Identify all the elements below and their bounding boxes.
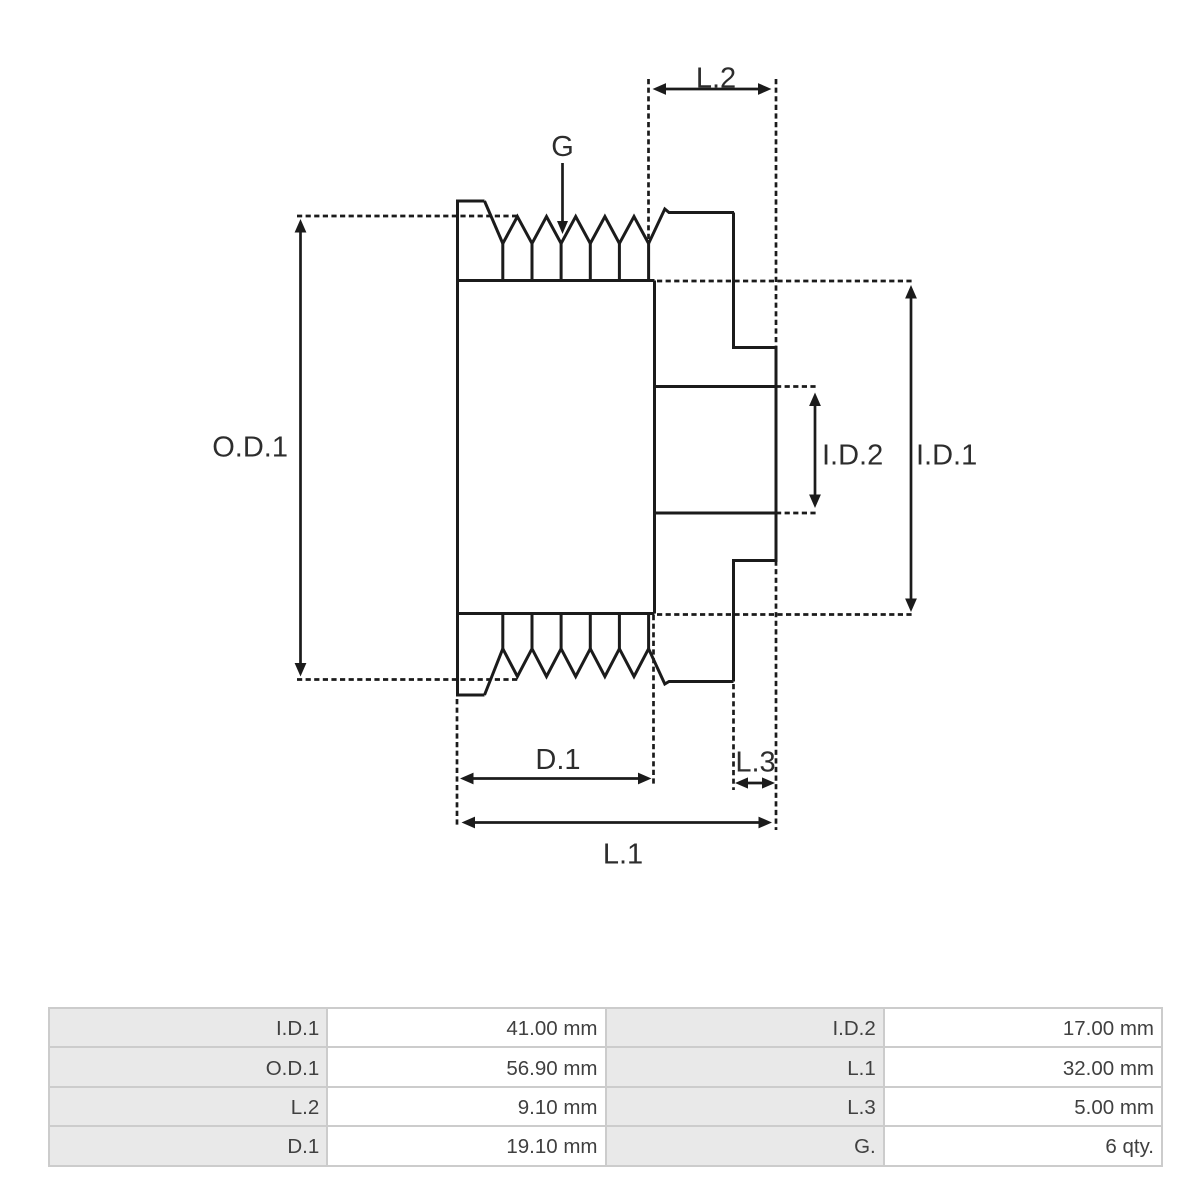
svg-text:G: G — [551, 131, 574, 163]
svg-text:I.D.2: I.D.2 — [822, 440, 883, 472]
I.D.2 dimension arrow (vertical) — [814, 403, 817, 497]
right face dashed reference upper — [775, 79, 778, 348]
svg-text:L.1: L.1 — [603, 839, 643, 871]
I.D.2 top dashed reference — [776, 385, 818, 388]
bottom groove baseline — [458, 612, 655, 615]
O.D.1 dimension arrow (vertical) — [299, 230, 302, 665]
L.2 dimension arrow (horizontal) — [664, 88, 760, 91]
I.D.1 bottom dashed reference — [657, 613, 914, 616]
dimension value table — [48, 1007, 1163, 1167]
L.2 left dashed reference — [647, 79, 650, 244]
top groove stems — [503, 244, 649, 281]
top groove baseline — [458, 279, 655, 282]
G leader arrow — [561, 163, 564, 222]
svg-text:I.D.1: I.D.1 — [916, 440, 977, 472]
svg-text:D.1: D.1 — [535, 744, 580, 776]
pulley bottom V-groove zigzag (6 grooves) — [503, 649, 649, 677]
O.D.1 bottom reference dashed line — [297, 678, 518, 681]
I.D.2 bottom dashed reference — [776, 512, 818, 515]
L.1 dimension arrow (horizontal) — [472, 821, 762, 824]
L.3 left dashed reference — [732, 684, 735, 790]
D.1 left dashed reference — [456, 699, 459, 828]
svg-text:L.3: L.3 — [735, 747, 775, 779]
pulley top V-groove zigzag (6 grooves) — [503, 217, 649, 244]
shaft bore top line — [655, 385, 777, 388]
pulley bottom-right lip slant — [649, 649, 734, 684]
hub upper-right profile — [734, 213, 777, 682]
D.1 right dashed reference — [652, 615, 655, 785]
L.3 dimension arrow (horizontal) — [744, 782, 766, 785]
I.D.1 top dashed reference — [657, 280, 914, 283]
bottom groove stems — [503, 614, 649, 649]
svg-text:O.D.1: O.D.1 — [212, 432, 288, 464]
pulley top-right lip slant — [649, 209, 734, 244]
pulley top cap slant into first groove — [485, 201, 503, 244]
pulley left flange: top cap, left edge, bottom cap — [458, 201, 485, 695]
shaft bore bottom line — [655, 512, 777, 515]
D.1 dimension arrow (horizontal) — [471, 777, 641, 780]
svg-text:L.2: L.2 — [696, 63, 736, 95]
body right edge — [653, 281, 656, 614]
pulley bottom cap slant — [485, 649, 503, 695]
I.D.1 dimension arrow (vertical) — [910, 296, 913, 601]
O.D.1 top reference dashed line — [297, 215, 518, 218]
right face dashed reference lower — [775, 561, 778, 831]
